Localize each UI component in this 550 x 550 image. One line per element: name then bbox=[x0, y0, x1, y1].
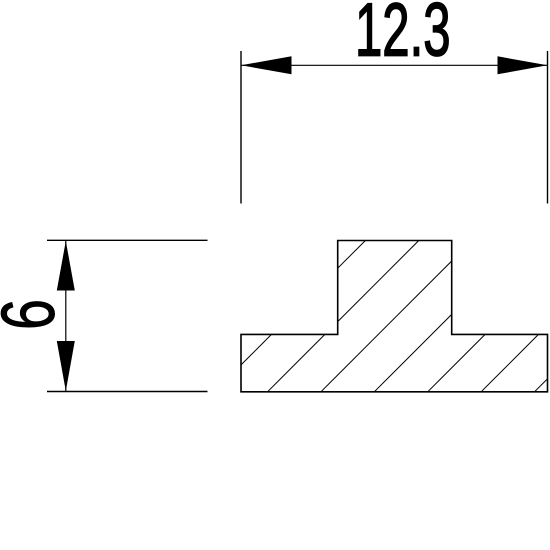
svg-text:6: 6 bbox=[0, 299, 70, 330]
svg-text:12.3: 12.3 bbox=[355, 0, 451, 72]
